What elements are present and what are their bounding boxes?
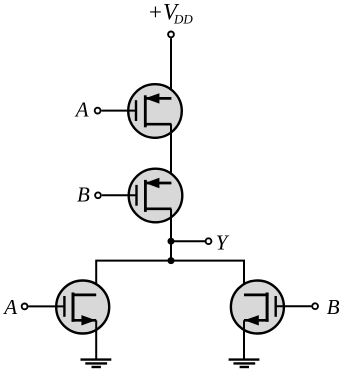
wire VDD to Q1 drain	[170, 38, 172, 98]
power terminal VDD	[168, 32, 174, 38]
svg-text:Y: Y	[216, 231, 230, 255]
junction dot at Y	[168, 238, 175, 245]
input terminal B (bottom)	[312, 303, 318, 309]
input terminal A (top)	[95, 108, 101, 114]
wire Q2 source to node Y and NMOS drains	[170, 209, 172, 261]
wire to output Y	[171, 240, 206, 242]
transistor Q2 (PMOS, input B)	[102, 169, 182, 223]
svg-text:B: B	[327, 295, 340, 319]
svg-text:B: B	[77, 183, 90, 207]
svg-text:DD: DD	[173, 11, 193, 26]
svg-text:A: A	[74, 98, 89, 122]
svg-text:A: A	[2, 295, 17, 319]
wire to Q4 drain	[171, 261, 244, 295]
junction dot at NMOS drain bus	[168, 257, 175, 264]
wire Q1 source to Q2 drain	[170, 124, 172, 183]
output terminal Y	[206, 238, 212, 244]
transistor Q4 (NMOS, input B)	[231, 281, 312, 334]
input terminal B (top)	[95, 192, 101, 198]
wire to Q3 drain	[96, 261, 171, 295]
ground (left)	[81, 360, 112, 367]
wire Q3 source to ground	[95, 320, 97, 359]
transistor Q3 (NMOS, input A)	[28, 281, 109, 334]
transistor Q1 (PMOS, input A)	[102, 84, 182, 138]
label +VDD	[148, 0, 194, 26]
input terminal A (bottom)	[22, 304, 28, 310]
wire Q4 source to ground	[243, 320, 245, 359]
ground (right)	[229, 360, 260, 367]
